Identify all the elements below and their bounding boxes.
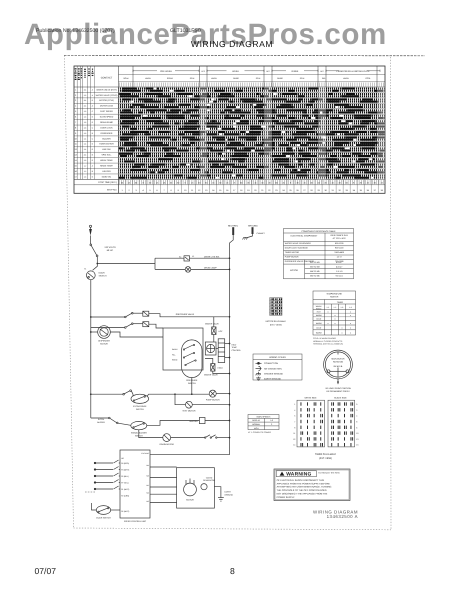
svg-text:TIMER MOTOR: TIMER MOTOR [285,251,300,254]
svg-text:MOTOR (CW): MOTOR (CW) [100,105,113,108]
svg-text:35: 35 [360,189,363,192]
wire SCU to drive motor [150,502,177,504]
svg-text:OFF: OFF [320,70,324,73]
svg-text:MOTOR: MOTOR [186,498,194,501]
wire coil2 to assembly [149,324,163,328]
svg-text:P1 (WHT): P1 (WHT) [121,488,129,491]
svg-text:31: 31 [331,189,334,192]
svg-text:30: 30 [198,181,200,184]
wire dispenser motor out [110,332,163,337]
svg-text:SWITCH: SWITCH [99,275,107,278]
svg-text:3: 3 [135,189,137,192]
svg-text:4: 4 [75,105,76,108]
svg-text:SPRAY: SPRAY [167,77,174,80]
svg-text:14: 14 [75,159,77,162]
junction [229,437,231,439]
svg-text:TACHO: TACHO [206,476,213,479]
junction [191,393,193,395]
svg-text:MAIN MOTOR: MAIN MOTOR [332,357,346,360]
svg-text:9.5-11.5: 9.5-11.5 [336,275,344,278]
svg-text:45: 45 [367,181,369,184]
wire drum lamp to neutral bus [191,268,230,270]
svg-text:32: 32 [338,189,341,192]
timer chart row labels [75,77,118,192]
svg-text:M1: M1 [146,484,148,487]
svg-text:11: 11 [191,189,194,192]
header rule [64,54,425,57]
svg-text:MOTOR: MOTOR [290,269,298,272]
cabinet chassis ground symbol [243,238,248,240]
timer plug pin marks [293,402,358,446]
svg-text:SLOW SPEED: SLOW SPEED [100,116,114,119]
svg-text:WATER VALVE: WATER VALVE [204,374,218,377]
wire to drum lamp [155,268,185,270]
svg-text:TEMP: TEMP [232,346,238,349]
svg-text:16: 16 [226,189,229,192]
drain motor [163,434,171,442]
drum lamp [185,267,191,273]
svg-text:x: x [335,314,336,317]
watermark [24,20,387,50]
wire door lock stub [92,503,97,510]
temperature switch table [313,291,356,335]
svg-text:AT 1: COMPLETE POWER: AT 1: COMPLETE POWER [248,431,272,434]
wire buzzer to bus [205,420,230,422]
svg-text:8: 8 [185,181,186,184]
door light switch L1 [184,256,190,261]
door lock switch [96,506,110,515]
legend connection symbol [256,362,262,364]
svg-text:60: 60 [310,181,312,184]
svg-text:MOTOR PLUG-MALE: MOTOR PLUG-MALE [266,320,287,323]
wire junction to door switch [93,264,98,271]
wire strip to bus 2 [225,357,230,359]
timer chart stop-time and step rows [119,179,379,193]
svg-text:M5: M5 [146,475,148,478]
page border bottom [74,528,392,530]
svg-text:30: 30 [170,181,172,184]
svg-text:DRAIN PUMP: DRAIN PUMP [100,121,113,124]
svg-text:13: 13 [356,438,358,441]
page border right [389,57,392,530]
svg-text:2-4: 2-4 [84,148,87,151]
svg-text:LID: LID [121,457,124,460]
svg-text:5: 5 [75,110,76,113]
svg-text:(EXT. VIEW): (EXT. VIEW) [319,457,332,460]
svg-text:M6 TO M5: M6 TO M5 [310,275,320,278]
water valve flow control [205,342,216,355]
svg-text:NORMAL: NORMAL [252,423,260,426]
svg-text:4.0-4.7: 4.0-4.7 [336,261,343,264]
svg-text:20: 20 [254,189,257,192]
svg-text:M1 TO M3: M1 TO M3 [310,261,320,264]
wire L1 to lamp branch [97,263,155,265]
svg-text:x: x [342,331,343,334]
svg-text:CABINET: CABINET [257,232,266,235]
water valve / pressure switch assembly box [163,328,203,370]
svg-text:30: 30 [324,189,327,192]
svg-text:WASH: WASH [232,70,239,73]
motor plug-male connector [270,298,282,316]
svg-text:A: A [92,88,94,91]
water valve HOT solenoid [212,327,216,335]
svg-text:8: 8 [356,420,357,423]
svg-text:CHASSIS GROUND: CHASSIS GROUND [264,373,283,376]
svg-text:6: 6 [157,189,159,192]
wire to buzzer [147,421,200,426]
svg-text:x: x [350,310,351,313]
svg-text:1: 1 [294,403,295,406]
svg-text:134632500 A: 134632500 A [327,514,358,519]
svg-text:45: 45 [156,181,158,184]
timer plug black side [328,400,355,447]
svg-text:WARNING: WARNING [286,472,311,478]
svg-text:T1: T1 [84,268,86,271]
svg-text:RINSE: RINSE [292,70,299,73]
svg-text:DEL.: DEL. [322,77,327,80]
buzzer selector switch [109,417,119,424]
svg-text:DOOR SWITCH: DOOR SWITCH [96,517,111,520]
svg-text:D: D [92,159,94,162]
svg-text:9: 9 [294,426,295,429]
extra rinse selector switch [123,390,132,395]
svg-text:16: 16 [212,181,214,184]
svg-text:28: 28 [310,189,313,192]
svg-text:RINSE: RINSE [233,77,240,80]
svg-text:NORMALLY CLOSED CONTACTS: NORMALLY CLOSED CONTACTS [313,340,343,343]
svg-text:MOTOR (CCW): MOTOR (CCW) [99,99,114,102]
svg-text:ATTEMPTING ANY USER MAINTENANC: ATTEMPTING ANY USER MAINTENANCE. TURNING [277,486,332,489]
timer chart OFF column light strips [200,87,208,179]
svg-text:DISPENSER: DISPENSER [98,340,110,343]
svg-text:800-1200: 800-1200 [335,242,344,245]
svg-text:x: x [342,327,343,330]
page border left [65,56,74,529]
svg-text:4.0-4.7: 4.0-4.7 [336,266,343,269]
svg-text:EXTRA: EXTRA [98,418,105,421]
neutral bus vertical [229,245,231,455]
test motor [186,401,193,408]
svg-text:2-3: 2-3 [84,116,87,119]
timer chart minute scale ticks [120,83,384,87]
svg-text:DOOR LITE SW.: DOOR LITE SW. [204,255,220,258]
wire SCU to drive motor [150,486,177,488]
svg-text:MOTOR: MOTOR [100,342,108,345]
svg-text:CONTACT: CONTACT [101,77,113,80]
publication number [36,28,115,34]
svg-text:7: 7 [164,189,166,192]
svg-text:15: 15 [356,444,358,447]
svg-text:TEST MOTOR: TEST MOTOR [182,409,196,412]
svg-text:RINSE TEMP.: RINSE TEMP. [100,164,113,167]
svg-text:(EXT. VIEW): (EXT. VIEW) [270,324,282,327]
svg-text:EARTH GROUND: EARTH GROUND [264,378,281,381]
svg-text:3: 3 [356,409,357,412]
power plug HOT prong [89,225,92,244]
warning box [274,469,350,501]
svg-text:L-3: L-3 [341,306,344,309]
svg-text:60: 60 [177,181,179,184]
svg-text:A: A [92,105,94,108]
svg-text:COLD: COLD [316,327,322,330]
svg-text:29: 29 [317,189,320,192]
svg-text:BUZZER: BUZZER [97,421,105,424]
svg-text:B: B [92,170,94,173]
svg-text:COLD: IN WARM SHADED: COLD: IN WARM SHADED [313,337,337,340]
svg-text:BUZZER: BUZZER [102,137,111,140]
svg-text:P7 (YEL): P7 (YEL) [121,481,129,484]
svg-text:D: D [92,121,94,124]
svg-text:120 VOLTS: 120 VOLTS [104,246,116,249]
junction [90,331,92,333]
svg-text:17: 17 [75,175,77,178]
svg-text:x: x [328,322,329,325]
svg-text:25: 25 [289,189,292,192]
svg-text:2-3: 2-3 [84,110,87,113]
svg-text:P4 (WHT): P4 (WHT) [121,468,129,471]
footer date [35,566,57,576]
svg-text:12: 12 [198,189,201,192]
wire pressure switch to lower rail [191,378,193,395]
wire lower contact feed [91,327,125,329]
svg-text:PUMP MOTOR: PUMP MOTOR [206,399,220,402]
svg-text:DISPENSER: DISPENSER [101,132,113,135]
svg-text:SPEED CONTROL UNIT: SPEED CONTROL UNIT [124,520,147,523]
wire to test motor [175,394,185,405]
svg-text:45: 45 [128,181,130,184]
svg-text:45: 45 [332,181,334,184]
component resistance table [284,229,354,279]
selector switch bank [94,460,120,464]
svg-text:24: 24 [282,189,285,192]
drive motor box [177,468,215,508]
svg-text:OFF: OFF [201,70,205,73]
svg-text:WASH: WASH [172,348,178,351]
svg-text:45: 45 [303,181,305,184]
svg-text:TERMINAL (NOT IN ALL MODELS): TERMINAL (NOT IN ALL MODELS) [313,343,343,346]
motor speed table [248,415,279,430]
svg-text:23: 23 [275,189,278,192]
svg-text:30: 30 [325,181,327,184]
svg-text:WIRING CODES: WIRING CODES [269,356,286,359]
wire pump motor to bus [216,393,229,395]
svg-text:27: 27 [303,189,306,192]
svg-text:2-4: 2-4 [84,143,87,146]
svg-text:A: A [92,164,94,167]
dispenser motor [98,326,111,339]
svg-text:L-2: L-2 [334,306,337,309]
svg-text:5: 5 [294,415,295,418]
svg-text:P3 (RED): P3 (RED) [121,462,129,465]
wire to buzzer switch [91,417,109,419]
svg-text:2-3: 2-3 [84,175,87,178]
svg-text:OFF: OFF [266,70,270,73]
svg-text:3: 3 [271,423,272,426]
svg-text:C: C [92,110,94,113]
junction [229,343,231,345]
svg-text:37: 37 [374,189,377,192]
svg-text:8: 8 [353,181,354,184]
svg-text:2: 2 [75,94,76,97]
svg-text:A: A [92,94,94,97]
junction [229,373,231,375]
wire SCU to drive motor [150,493,177,495]
svg-text:D: D [92,143,94,146]
svg-text:8: 8 [171,189,173,192]
svg-text:EARTH: EARTH [225,491,232,494]
svg-text:FILL: FILL [172,353,176,356]
svg-text:MAIN SW.: MAIN SW. [102,175,112,178]
dispenser valve coil 2 [143,322,149,327]
water valve COLD solenoid [211,364,215,372]
svg-text:60: 60 [135,181,137,184]
svg-text:STOP TIME (SEC.): STOP TIME (SEC.) [98,181,117,184]
svg-text:8: 8 [290,181,291,184]
svg-text:8: 8 [143,181,144,184]
wire cold coil to bus [213,371,230,373]
svg-text:STEP NO.: STEP NO. [107,189,118,192]
svg-text:SW 410 B.: SW 410 B. [333,365,343,368]
svg-text:HOT: HOT [317,310,322,313]
timer chart contact ink texture [119,88,386,179]
svg-text:CONTROL: CONTROL [232,349,241,352]
interlock switch contacts [205,435,218,439]
svg-text:COMPONENT RESISTANCE TABLE: COMPONENT RESISTANCE TABLE [301,230,336,233]
legend earth ground symbol [256,377,261,381]
svg-text:30: 30 [296,181,298,184]
junction [229,357,231,359]
wire to drain motor [139,430,163,438]
svg-text:11: 11 [75,143,77,146]
tacho generator [201,484,207,490]
svg-text:12: 12 [75,148,77,151]
svg-text:P2 (GRN): P2 (GRN) [121,494,129,497]
svg-text:30: 30 [360,181,362,184]
svg-text:RINSE: RINSE [316,307,322,310]
svg-text:16: 16 [318,181,320,184]
wire dispenser valve to bus [149,314,230,317]
svg-text:FAST SPEED: FAST SPEED [100,110,113,113]
lower rail left segment [91,393,123,395]
timer plug white side [297,400,325,447]
junction [229,269,231,271]
svg-text:2-3: 2-3 [84,132,87,135]
svg-text:18: 18 [240,189,243,192]
dispenser valve coil 1 [143,311,149,316]
svg-text:DOOR LOCK SOLENOID: DOOR LOCK SOLENOID [285,246,308,249]
svg-text:x: x [350,314,351,317]
svg-text:8: 8 [75,126,76,129]
svg-text:C: C [92,137,94,140]
svg-text:5: 5 [150,189,152,192]
timer chart column dividers [133,66,377,179]
svg-text:M2: M2 [146,491,148,494]
svg-text:4: 4 [356,415,357,418]
svg-text:1.5-1.9: 1.5-1.9 [336,270,343,273]
svg-text:3100-4400: 3100-4400 [334,251,344,254]
wire to timer contacts [91,316,125,318]
svg-text:45: 45 [282,181,284,184]
timer sequence chart frame [74,66,385,193]
svg-text:13: 13 [75,154,77,157]
svg-text:1-3: 1-3 [84,121,87,124]
svg-text:11: 11 [293,432,295,435]
svg-text:B: B [92,154,94,157]
svg-text:M4: M4 [146,464,148,467]
svg-text:60: 60 [205,181,207,184]
svg-text:OF PERMANENT PRESS: OF PERMANENT PRESS [326,390,350,393]
svg-text:D: D [92,116,94,119]
svg-text:3-4: 3-4 [84,99,87,102]
svg-text:60 HZ.: 60 HZ. [107,249,114,252]
svg-text:21: 21 [261,189,264,192]
junction [90,393,92,395]
wire hot coil to valve [213,335,215,343]
svg-text:3: 3 [75,99,76,102]
svg-text:HEATER: HEATER [102,170,111,173]
svg-text:6: 6 [356,426,357,429]
svg-text:SPIN: SPIN [190,77,195,80]
timer contact (dispenser cold) [125,323,143,328]
svg-text:L-1: L-1 [327,306,330,309]
svg-text:WATER VALVE (HOT): WATER VALVE (HOT) [96,88,117,91]
svg-text:PUMP MOTOR: PUMP MOTOR [285,256,299,259]
svg-text:14: 14 [212,189,215,192]
svg-text:45: 45 [191,181,193,184]
svg-text:RESISTANCE IN Ω: RESISTANCE IN Ω [331,234,349,237]
svg-text:30: 30 [268,181,270,184]
svg-text:7: 7 [294,420,295,423]
svg-text:45: 45 [254,181,256,184]
pressure switch contacts [183,344,196,365]
svg-text:12: 12 [293,438,295,441]
svg-text:MAIN SPEEDS: MAIN SPEEDS [257,415,271,418]
speed control unit box [120,450,150,518]
svg-text:DOOR LOCK: DOOR LOCK [100,126,113,129]
svg-text:L1: L1 [192,255,195,258]
wire hot coil to bus line [213,317,215,327]
svg-text:SPIN SOL.: SPIN SOL. [101,154,111,157]
svg-text:DRAIN MOTOR: DRAIN MOTOR [160,443,175,446]
footer page number [230,566,235,576]
lower rail mid segment [147,394,175,396]
svg-text:N: N [75,77,77,80]
svg-text:GROUND: GROUND [225,493,234,496]
svg-text:TIMER PLUG-MALE: TIMER PLUG-MALE [315,453,337,456]
svg-text:WHITE SIDE: WHITE SIDE [304,396,317,399]
svg-text:19: 19 [247,189,250,192]
junction [229,316,231,318]
wire to door-lite switch [155,257,184,259]
wire valve to strip [216,348,218,350]
svg-text:3-4: 3-4 [84,105,87,108]
svg-text:DOOR: DOOR [99,272,106,275]
svg-text:ELECTRICAL COMPONENT: ELECTRICAL COMPONENT [291,235,319,238]
svg-text:45: 45 [381,181,383,184]
svg-text:1: 1 [75,88,76,91]
svg-text:WARM: WARM [316,322,322,325]
buzzer [199,418,205,424]
svg-text:x: x [350,331,351,334]
wire SCU to neutral bus top [150,454,230,456]
svg-text:D: D [92,175,94,178]
svg-text:10: 10 [356,432,358,435]
svg-text:SWITCH: SWITCH [330,296,339,299]
svg-text:C: C [92,126,94,129]
dashed option wire [85,491,95,493]
svg-text:1-2: 1-2 [270,419,273,422]
svg-text:12-17: 12-17 [337,256,343,259]
